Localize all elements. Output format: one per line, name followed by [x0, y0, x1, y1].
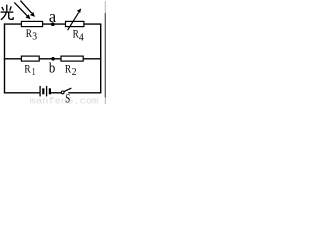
- resistor R4 (rheostat box): [66, 21, 84, 26]
- wire: middle right segment: [83, 58, 101, 60]
- battery cell 1 short plate: [42, 88, 44, 94]
- svg-text:S: S: [65, 91, 70, 105]
- right edge border artifact: [104, 13, 106, 98]
- node b junction dot: [51, 57, 55, 61]
- svg-text:a: a: [49, 7, 57, 26]
- wire: battery to switch: [51, 92, 62, 94]
- wire: middle center segment: [39, 58, 61, 60]
- battery cell 2 short plate: [49, 88, 51, 94]
- switch S lever: [64, 88, 71, 92]
- wire: top right segment: [84, 23, 101, 25]
- wire: top left segment: [4, 23, 22, 25]
- battery cell 1 long plate: [39, 86, 41, 97]
- svg-text:4: 4: [79, 32, 84, 43]
- light ray arrow 1: [14, 2, 27, 16]
- svg-text:b: b: [49, 60, 55, 76]
- svg-text:manfen5.com: manfen5.com: [30, 96, 99, 105]
- battery cell 2 long plate: [46, 86, 48, 97]
- svg-text:R: R: [26, 26, 32, 40]
- rheostat arrow of R4: [68, 13, 79, 31]
- wire: middle left segment: [4, 58, 22, 60]
- wire: bottom right segment: [68, 92, 101, 94]
- switch S pivot circle: [61, 91, 64, 94]
- wire: left vertical: [4, 24, 6, 93]
- svg-text:3: 3: [32, 32, 37, 43]
- wire: top middle segment: [43, 23, 66, 25]
- svg-text:2: 2: [72, 67, 77, 78]
- light ray arrow 2: [20, 1, 31, 14]
- svg-text:1: 1: [32, 67, 36, 78]
- hanzi guang (light) drawn strokes: [1, 5, 14, 20]
- svg-text:R: R: [65, 61, 71, 75]
- node a junction dot: [51, 22, 55, 26]
- wire: right vertical: [100, 24, 102, 93]
- resistor R3: [21, 21, 42, 26]
- resistor R1: [21, 56, 39, 61]
- wire: bottom left segment: [4, 92, 40, 94]
- resistor R2: [61, 56, 83, 61]
- svg-text:R: R: [24, 61, 30, 75]
